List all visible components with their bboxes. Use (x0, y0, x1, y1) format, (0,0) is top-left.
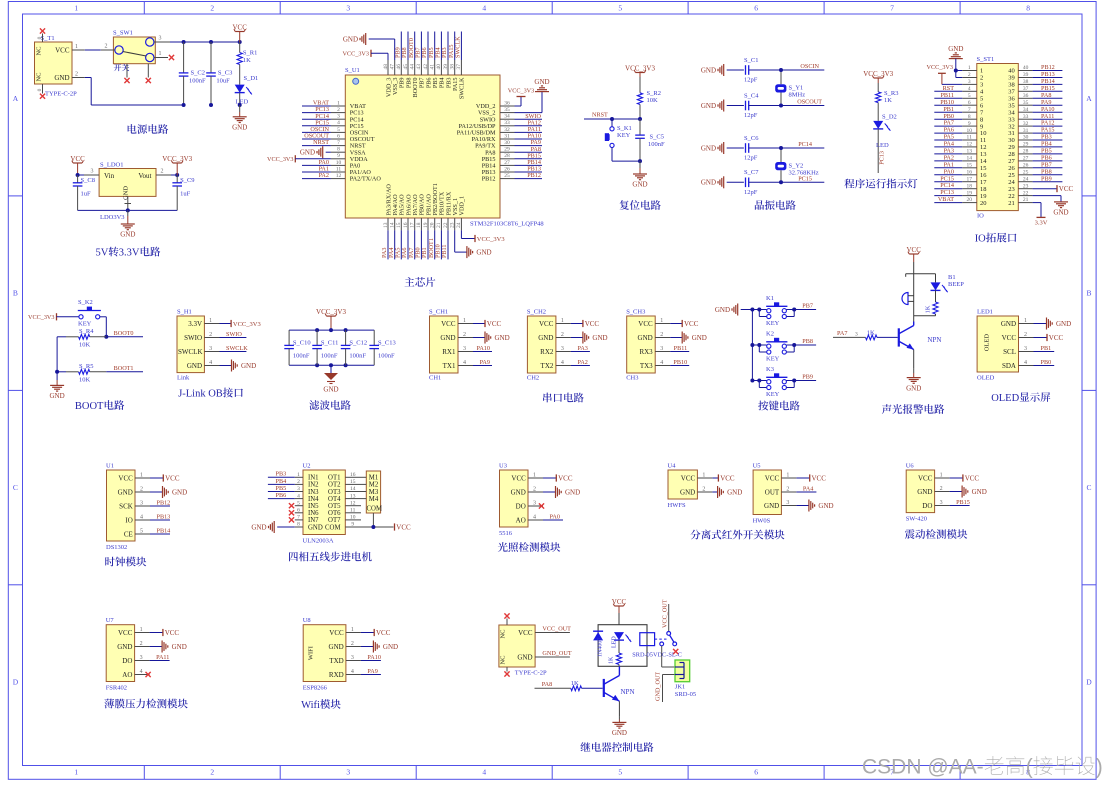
svg-text:PC15: PC15 (798, 176, 812, 183)
svg-text:PB10: PB10 (940, 99, 954, 106)
svg-text:GND: GND (701, 102, 716, 110)
svg-text:OUT: OUT (765, 488, 780, 496)
header ST1 pin 23 (1008, 183, 1032, 193)
svg-text:1: 1 (337, 100, 340, 106)
svg-text:SWCLK: SWCLK (226, 345, 248, 352)
module U1 DS1302 body (106, 463, 135, 552)
svg-text:BOOT1: BOOT1 (114, 365, 134, 372)
MCU left pin 10 PA0 (331, 160, 360, 170)
svg-text:GND: GND (680, 488, 695, 496)
MCU top pin 38 PA15 (450, 60, 460, 91)
svg-text:VCC_3V3: VCC_3V3 (267, 156, 293, 163)
net label BOOT0 wire (106, 330, 143, 337)
svg-text:13: 13 (383, 222, 389, 228)
svg-text:5516: 5516 (499, 530, 513, 537)
svg-text:GND: GND (1053, 209, 1068, 217)
svg-text:GND: GND (118, 488, 133, 496)
svg-text:LDO3V3: LDO3V3 (100, 214, 125, 221)
MCU top pin 37 SWCLK (456, 60, 466, 99)
svg-text:K3: K3 (766, 366, 774, 373)
svg-text:100nF: 100nF (189, 78, 206, 85)
svg-text:GND: GND (612, 729, 627, 737)
svg-text:39: 39 (1023, 72, 1029, 78)
svg-text:1: 1 (351, 627, 354, 633)
MCU left pin 7 NRST (331, 140, 366, 150)
header ST1 body (977, 56, 1019, 220)
svg-text:S_K1: S_K1 (617, 125, 632, 132)
svg-text:PC13: PC13 (878, 151, 885, 165)
svg-text:0: 0 (37, 36, 43, 39)
svg-text:IN2: IN2 (308, 482, 319, 489)
regulator LDO1 (99, 162, 156, 222)
svg-text:A: A (1086, 94, 1092, 103)
no-connect X at U2 pin6 (289, 510, 294, 515)
svg-text:36: 36 (1008, 96, 1015, 103)
pin 2 of CH2 (556, 332, 571, 338)
svg-text:M3: M3 (369, 489, 379, 496)
LED D2 (873, 114, 897, 174)
svg-text:PB10: PB10 (673, 359, 687, 366)
svg-text:1: 1 (660, 318, 663, 324)
net label VBAT wire left of header (934, 196, 962, 203)
svg-text:U2: U2 (303, 463, 311, 470)
svg-text:GND: GND (538, 334, 553, 342)
net label PC14 wire (302, 113, 331, 120)
svg-text:NRST: NRST (313, 139, 329, 146)
no-connect X marks under SW1 (124, 78, 150, 83)
GND port at CH2 (571, 332, 608, 344)
svg-text:37: 37 (1008, 89, 1015, 96)
svg-text:GND: GND (323, 386, 338, 394)
capacitor C1 with GND (701, 57, 781, 84)
svg-text:S_CH3: S_CH3 (626, 309, 645, 316)
GND port at U7 pin2 (150, 641, 187, 653)
svg-text:PA2: PA2 (577, 359, 587, 366)
svg-text:S_D1: S_D1 (244, 75, 259, 82)
connector CH3 body (626, 309, 655, 382)
module U7 FSR402 body (106, 617, 135, 691)
svg-text:3: 3 (337, 114, 340, 120)
header ST1 pin 16 (962, 169, 987, 179)
title 晶振电路 (755, 200, 796, 210)
svg-text:4: 4 (482, 4, 486, 13)
net label PB3 vertical wire above MCU (441, 32, 448, 61)
capacitor C5 (635, 119, 665, 161)
svg-text:OT5: OT5 (328, 503, 341, 510)
relay body box (598, 625, 647, 667)
net label PA4 vertical wire below MCU (388, 230, 395, 259)
svg-text:VCC: VCC (1049, 334, 1064, 342)
svg-text:2: 2 (297, 479, 300, 485)
header ST1 pin 11 (962, 135, 986, 145)
svg-text:OT6: OT6 (328, 510, 341, 517)
svg-text:GND: GND (50, 392, 65, 400)
svg-text:4: 4 (463, 360, 466, 366)
svg-text:PB12: PB12 (527, 172, 541, 179)
svg-text:PB6: PB6 (276, 492, 287, 499)
svg-text:2: 2 (210, 768, 214, 777)
svg-text:4: 4 (561, 360, 564, 366)
no-connect X at U7 pin4 (146, 672, 151, 677)
svg-text:11: 11 (967, 135, 973, 141)
svg-text:S_C12: S_C12 (349, 340, 367, 347)
svg-text:S_Y2: S_Y2 (789, 163, 804, 170)
svg-text:CH1: CH1 (429, 375, 441, 382)
svg-text:1: 1 (533, 473, 536, 479)
svg-text:PB7: PB7 (802, 303, 813, 310)
no-connect X at U2 pin7 (289, 517, 294, 522)
svg-text:2: 2 (210, 4, 214, 13)
svg-text:VCC_3V3: VCC_3V3 (863, 70, 893, 78)
svg-text:21: 21 (1008, 200, 1015, 207)
svg-text:VCC_3V3: VCC_3V3 (233, 321, 261, 328)
svg-text:27: 27 (504, 160, 510, 166)
svg-text:VCC: VCC (118, 474, 133, 482)
svg-text:NPN: NPN (621, 688, 635, 696)
header ST1 pin 6 (962, 100, 984, 110)
svg-text:3: 3 (209, 346, 212, 352)
svg-text:GND: GND (232, 124, 247, 132)
svg-text:23: 23 (1023, 183, 1029, 189)
svg-text:13: 13 (350, 493, 356, 499)
net label NRST wire (584, 112, 640, 120)
svg-text:GND: GND (329, 643, 344, 651)
svg-text:4: 4 (337, 120, 340, 126)
svg-text:Wifi: Wifi (301, 700, 320, 711)
capacitor C8 (73, 175, 95, 210)
svg-text:IO: IO (975, 234, 986, 245)
svg-text:3: 3 (786, 500, 789, 506)
MCU left pin 3 PC14 (331, 114, 364, 124)
title 电源电路 (128, 124, 169, 134)
MCU right pin 31 PA10/RX (472, 133, 515, 143)
title 光照检测模块 (498, 542, 560, 552)
net label NRST wire (302, 139, 331, 146)
svg-text:3: 3 (533, 501, 536, 507)
header ST1 pin 34 (1008, 107, 1032, 117)
svg-text:GND: GND (701, 144, 716, 152)
net label PB6 wire right of header (1033, 155, 1063, 162)
GND port at U1 pin2 (150, 486, 187, 498)
svg-text:4: 4 (297, 493, 300, 499)
module U4 HWFS body (668, 463, 698, 510)
svg-text:19: 19 (423, 222, 429, 228)
resistor R5 (57, 363, 106, 383)
net label PB0 wire left of header (934, 113, 962, 120)
svg-text:PB13: PB13 (1041, 71, 1055, 78)
svg-text:1uF: 1uF (180, 191, 191, 198)
svg-text:5: 5 (140, 529, 143, 535)
svg-text:VCC_3V3: VCC_3V3 (162, 155, 192, 163)
MCU left pin 6 OSCOUT (331, 133, 375, 143)
svg-text:32: 32 (1023, 121, 1029, 127)
title Wifi模块 (301, 699, 341, 711)
GND port at CH1 (473, 332, 510, 344)
svg-text:Vout: Vout (138, 172, 151, 180)
net label PA15 wire right of header (1033, 127, 1063, 134)
svg-text:CSDN @AA-: CSDN @AA- (862, 756, 984, 779)
net label PB15 wire right of header (1033, 85, 1063, 92)
no-connect X on SW1 pin 1 (169, 55, 174, 60)
MCU right pin 28 PB15 (482, 153, 515, 163)
pin 2 of H1 (204, 332, 219, 338)
MCU right pin 34 SWIO (480, 114, 515, 124)
svg-text:PB5: PB5 (276, 485, 287, 492)
svg-text:34: 34 (504, 114, 510, 120)
net label OSCOUT wire (781, 99, 824, 106)
net label PC14 wire left of header (934, 182, 962, 189)
pin 1 of U6 (935, 473, 950, 479)
label SRD-05VDC-SL-C (632, 652, 682, 659)
pin 0 top of T1 (37, 34, 43, 43)
svg-text:LED1: LED1 (977, 309, 993, 316)
MCU top pin 45 PB8 (403, 60, 413, 88)
svg-text:U7: U7 (106, 617, 115, 624)
svg-text:IN7: IN7 (308, 517, 319, 524)
svg-text:5: 5 (980, 96, 983, 103)
svg-text:7: 7 (968, 107, 971, 113)
GND port at H1 pin4 (220, 360, 257, 372)
wire SW1 pin3 to VCC rail (170, 41, 240, 43)
svg-text:27: 27 (1023, 156, 1029, 162)
svg-text:S_K2: S_K2 (78, 299, 93, 306)
header ST1 pin 29 (1008, 142, 1032, 152)
svg-text:3: 3 (940, 500, 943, 506)
svg-text:C: C (1086, 483, 1091, 492)
svg-text:12pF: 12pF (744, 112, 758, 119)
GND port at MCU VSS_2 (515, 78, 550, 113)
svg-text:16: 16 (966, 169, 972, 175)
svg-text:12pF: 12pF (744, 77, 758, 84)
net label PB10 vertical wire below MCU (435, 230, 442, 259)
power port VCC (232, 23, 247, 42)
MCU left pin 2 PC13 (331, 107, 364, 117)
net label PB9 vertical wire above MCU (395, 32, 402, 61)
svg-text:S_R5: S_R5 (79, 363, 93, 370)
svg-text:GND: GND (251, 523, 266, 531)
header ST1 pin 18 (962, 183, 986, 193)
module U3 5516 body (499, 463, 528, 538)
svg-text:VCC: VCC (558, 474, 573, 482)
net label PB0 wire at LED1 (1034, 359, 1055, 366)
svg-text:VCC: VCC (118, 629, 133, 637)
module U5 HW0S body (753, 463, 782, 525)
svg-text:JK1: JK1 (675, 684, 685, 691)
pin 3 of U6 (935, 500, 950, 506)
net label PB12 wire right of header (1033, 64, 1063, 71)
ground GND relay (612, 717, 627, 738)
header ST1 pin 37 (1008, 86, 1032, 96)
svg-text:RST: RST (943, 85, 955, 92)
header ST1 pin 2 (962, 72, 983, 82)
MCU top pin 40 PB4 (436, 60, 446, 88)
svg-text:RXD: RXD (329, 671, 344, 679)
net label SWCLK wire (220, 345, 249, 352)
switch SW1 (113, 30, 155, 64)
svg-text:2: 2 (940, 486, 943, 492)
right pin 12 of U2 (345, 500, 361, 506)
svg-text:DO: DO (922, 502, 932, 510)
MCU right pin 30 PA9/TX (475, 140, 514, 150)
svg-text:26: 26 (1023, 163, 1029, 169)
net label PB10 wire at CH3 (670, 359, 689, 366)
svg-text:GND: GND (638, 334, 653, 342)
title 主芯片 (405, 277, 436, 287)
net label PB14 wire right of header (1033, 78, 1063, 85)
VCC port at U7 pin1 (150, 629, 180, 637)
svg-text:NC: NC (500, 655, 507, 664)
net label PB13 wire right of MCU (515, 166, 543, 173)
svg-text:SWIO: SWIO (226, 331, 242, 338)
header ST1 pin 25 (1008, 169, 1032, 179)
net label PA6 wire left of header (934, 127, 962, 134)
svg-text:COM: COM (367, 506, 383, 513)
svg-text:3: 3 (660, 346, 663, 352)
header ST1 pin 27 (1008, 156, 1032, 166)
svg-text:S_C4: S_C4 (744, 92, 759, 99)
svg-text:VCC: VCC (1002, 334, 1017, 342)
net label OSCIN wire (302, 126, 331, 133)
svg-text:6: 6 (968, 100, 971, 106)
svg-text:GND: GND (476, 249, 491, 257)
svg-text:VCC_3V3: VCC_3V3 (343, 51, 369, 58)
svg-text:16: 16 (350, 472, 356, 478)
svg-text:PB4: PB4 (1041, 141, 1052, 148)
svg-text:100nF: 100nF (349, 353, 366, 360)
svg-text:S_C3: S_C3 (218, 69, 232, 76)
svg-text:1: 1 (74, 4, 78, 13)
svg-text:8: 8 (297, 522, 300, 528)
pin 4 of CH3 (655, 360, 670, 366)
svg-text:SRD-05: SRD-05 (675, 691, 696, 698)
svg-text:8: 8 (1026, 4, 1030, 13)
svg-text:7: 7 (297, 515, 300, 521)
junction dots on NRST wire (610, 117, 642, 121)
svg-text:OSCOUT: OSCOUT (797, 99, 822, 106)
svg-text:1K: 1K (925, 305, 932, 313)
svg-text:36: 36 (1023, 93, 1029, 99)
alarm top rail (906, 274, 936, 277)
svg-text:VCC_3V3: VCC_3V3 (316, 308, 346, 316)
MCU left pin 9 VDDA (331, 153, 368, 163)
connector CH2 body (527, 309, 556, 382)
VCC port at U8 pin1 (361, 629, 391, 637)
pin 2 of U1 (135, 487, 150, 493)
net label PB3 wire at U2 (268, 471, 295, 478)
svg-text:24: 24 (456, 222, 462, 228)
transistor NPN alarm (899, 322, 942, 369)
svg-text:PB15: PB15 (1041, 85, 1055, 92)
svg-text:31: 31 (1008, 130, 1015, 137)
power port VCC alarm (906, 246, 921, 274)
VCC port at U6 pin1 (950, 474, 980, 482)
svg-text:S_C13: S_C13 (378, 340, 396, 347)
svg-text:M1: M1 (369, 475, 378, 482)
svg-text:1: 1 (561, 318, 564, 324)
GND port above header (948, 45, 963, 77)
svg-text:2: 2 (968, 72, 971, 78)
MCU left pin 5 OSCIN (331, 127, 369, 137)
svg-text:GND: GND (308, 524, 323, 531)
header ST1 pin 9 (962, 121, 983, 131)
net label PA15 vertical wire above MCU (448, 32, 455, 61)
svg-text:3: 3 (1024, 346, 1027, 352)
svg-text:K2: K2 (766, 330, 774, 337)
svg-text:10K: 10K (647, 97, 659, 104)
svg-text:GND: GND (534, 78, 549, 86)
MCU bottom pin 20 PB2/BOOT1 (430, 183, 440, 230)
T2 bottom pin with X (504, 667, 509, 677)
MCU top pin 41 PB5 (430, 60, 440, 88)
header ST1 pin 5 (962, 93, 983, 103)
LED inside relay box (612, 632, 632, 648)
GND port at U6 pin2 (950, 486, 987, 498)
svg-text:IO: IO (125, 516, 132, 524)
net label RST wire left of header (934, 85, 962, 92)
pin 4 of U7 (135, 669, 150, 675)
net label PB15 wire right of MCU (515, 152, 543, 159)
MCU bottom pin 13 PA3/RX/AO (383, 184, 393, 231)
svg-text:S_D2: S_D2 (882, 114, 897, 121)
net label PC13 wire left of header (934, 189, 962, 196)
svg-text:29: 29 (1008, 144, 1015, 151)
svg-text:14: 14 (390, 222, 396, 228)
net label PB3 wire right of header (1033, 134, 1063, 141)
pin 1 of SW1 (154, 51, 168, 58)
svg-text:BOOT: BOOT (75, 401, 104, 412)
svg-text:12: 12 (980, 144, 987, 151)
net label PB7 vertical wire above MCU (415, 32, 422, 61)
svg-text:GND: GND (972, 488, 987, 496)
net label PB9 wire at K3 (794, 374, 816, 381)
svg-text:20: 20 (966, 197, 972, 203)
title 5V转3.3V电路 (96, 247, 161, 259)
svg-text:GND: GND (343, 35, 358, 43)
svg-text:3: 3 (91, 169, 94, 175)
GND port at U3 pin2 (543, 486, 580, 498)
svg-text:PB1: PB1 (943, 106, 954, 113)
svg-text:35: 35 (504, 107, 510, 113)
left pin 7 of U2 (295, 515, 303, 521)
svg-text:1: 1 (159, 51, 162, 57)
svg-text:12pF: 12pF (744, 155, 758, 162)
svg-text:PA2/TX/AO: PA2/TX/AO (350, 176, 382, 183)
pin 1 of U7 (135, 627, 150, 633)
svg-text:SRD-05VDC-SL-C: SRD-05VDC-SL-C (632, 652, 682, 659)
title 震动检测模块 (905, 529, 967, 539)
svg-text:SWCLK: SWCLK (178, 348, 203, 356)
svg-text:15: 15 (396, 222, 402, 228)
net label PC15 wire left of header (934, 175, 962, 182)
svg-text:42: 42 (423, 64, 429, 70)
svg-text:S_R1: S_R1 (243, 50, 257, 57)
left pin 1 of U2 (295, 472, 303, 478)
pin 4 of U8 (346, 669, 361, 675)
connector CH1 body (429, 309, 458, 382)
svg-text:PA8: PA8 (542, 681, 552, 688)
VCC port at U4 pin1 (712, 474, 735, 482)
pin 1 of U5 (781, 473, 796, 479)
resistor R1 (237, 42, 257, 85)
no-connect X at U2 pin5 (289, 503, 294, 508)
motor connector M1-M4 (361, 471, 382, 513)
resistor 1K inside relay box (609, 640, 622, 666)
svg-text:4: 4 (140, 515, 143, 521)
svg-text:SW-420: SW-420 (906, 516, 927, 523)
no-connect X under relay contact (673, 649, 678, 654)
net label GND_OUT wire at JK1 (655, 672, 676, 702)
VCC_3V3 port above MCU (343, 50, 388, 60)
